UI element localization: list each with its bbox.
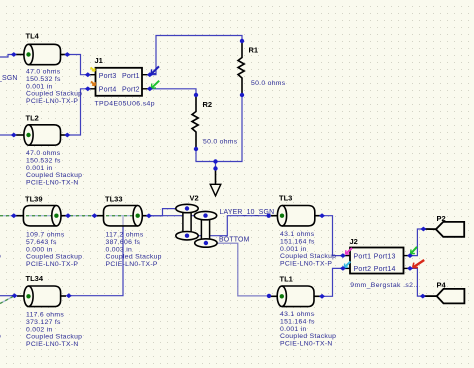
pin dot TL33 output xyxy=(136,214,140,218)
svg-text:LAYER_10_SGN: LAYER_10_SGN xyxy=(220,209,275,216)
svg-text:TPD4E05U06.s4p: TPD4E05U06.s4p xyxy=(95,100,155,107)
orange arrow marker at J1 left xyxy=(91,82,95,86)
pin terminal J2 Port2 xyxy=(340,266,346,271)
wire J1 Port2 to R2 top xyxy=(150,89,196,95)
red arrow marker at J2 Port14 xyxy=(413,260,424,268)
pin terminal TL39 output xyxy=(65,213,71,218)
svg-text:PCIE-LN0-TX-P: PCIE-LN0-TX-P xyxy=(106,261,158,268)
node R1 bottom terminal xyxy=(240,93,244,97)
svg-text:PCIE-LN0-TX-P: PCIE-LN0-TX-P xyxy=(26,261,78,268)
wire dashed highlight into TL39 input xyxy=(0,216,93,304)
svg-text:PCIE-LN0-TX-N: PCIE-LN0-TX-N xyxy=(26,341,79,348)
wire J2 Port13 to P2 xyxy=(410,229,423,256)
svg-text:Port4: Port4 xyxy=(99,87,117,94)
node R1 top terminal xyxy=(240,39,244,43)
svg-text:117.2 ohms: 117.2 ohms xyxy=(106,232,144,239)
svg-text:P4: P4 xyxy=(437,281,447,290)
svg-text:387.606 fs: 387.606 fs xyxy=(106,239,141,246)
svg-text:0.000 in: 0.000 in xyxy=(26,246,53,253)
wire dashed diagonal into TL34 input xyxy=(0,297,13,304)
wire dashed between TL39 and TL33 xyxy=(70,215,93,217)
pin terminal TL34 output xyxy=(66,293,72,298)
svg-text:50.0 ohms: 50.0 ohms xyxy=(203,139,238,146)
wire TL33 output to V2 left barrel top xyxy=(149,209,187,216)
svg-text:0.001 in: 0.001 in xyxy=(280,326,307,333)
svg-text:TL33: TL33 xyxy=(105,195,123,204)
green arrow marker at J2 Port13 xyxy=(411,247,417,254)
dark blue arrow marker at J1 Port1 xyxy=(151,66,159,74)
svg-text:TL1: TL1 xyxy=(280,275,293,284)
svg-text:47.0 ohms: 47.0 ohms xyxy=(26,150,61,157)
pin dot TL39 output xyxy=(54,214,58,218)
svg-text:R1: R1 xyxy=(249,46,259,55)
svg-text:Port3: Port3 xyxy=(99,73,117,80)
magenta arrow marker at J2 Port1 xyxy=(346,248,353,254)
wire V2 left barrel bottom to LAYER_10_SGN net xyxy=(187,216,269,236)
svg-text:Port1: Port1 xyxy=(122,73,140,80)
svg-text:TL2: TL2 xyxy=(26,114,39,123)
transmission line TL33 (ellipse right) xyxy=(97,206,148,226)
svg-text:Coupled Stackup: Coupled Stackup xyxy=(280,253,336,260)
wire TL4 output to J1 Port3 xyxy=(67,55,88,75)
svg-text:43.1 ohms: 43.1 ohms xyxy=(280,231,315,238)
wire junction to V2 arrow xyxy=(215,162,217,169)
junction at V2 arrow wire xyxy=(213,159,217,163)
svg-text:R2: R2 xyxy=(203,100,213,109)
svg-text:150.532 fs: 150.532 fs xyxy=(26,157,61,164)
pin terminal TL3 output xyxy=(319,213,325,218)
pin terminal J2 Port13 xyxy=(407,253,413,258)
wire TL34 input xyxy=(0,295,15,297)
via V2 right barrel xyxy=(201,217,209,241)
svg-text:151.164 fs: 151.164 fs xyxy=(280,318,315,325)
svg-text:0.003 in: 0.003 in xyxy=(106,246,133,253)
transmission line TL4 xyxy=(16,44,66,64)
svg-text:Port14: Port14 xyxy=(374,266,396,273)
wire J1 Port1 to R1 top xyxy=(150,36,242,75)
svg-text:Coupled Stackup: Coupled Stackup xyxy=(280,333,336,340)
svg-text:p: p xyxy=(0,253,1,260)
svg-text:V2: V2 xyxy=(190,194,199,203)
wire TL1 output to J2 Port2 xyxy=(322,268,343,296)
svg-text:Port1: Port1 xyxy=(354,253,372,260)
pin terminal TL2 output xyxy=(64,133,70,138)
cyan arrow marker at J2 Port2 xyxy=(344,262,350,268)
transmission line TL39 (ellipse right) xyxy=(16,206,68,226)
svg-text:150.532 fs: 150.532 fs xyxy=(26,76,61,83)
svg-text:_SGN: _SGN xyxy=(0,75,18,82)
pin terminal P4 xyxy=(420,294,426,299)
junction at TL1 input (BOTTOM) xyxy=(267,294,271,298)
svg-text:J1: J1 xyxy=(95,56,103,65)
wire TL3 output to J2 Port1 xyxy=(322,216,343,256)
svg-text:Coupled Stackup: Coupled Stackup xyxy=(26,254,82,261)
pin dot TL3 input xyxy=(280,214,284,218)
svg-text:Coupled Stackup: Coupled Stackup xyxy=(26,91,82,98)
svg-text:TL3: TL3 xyxy=(279,194,292,203)
node V2 arrow pin xyxy=(213,166,217,170)
pin terminal P2 xyxy=(420,227,426,232)
svg-text:0.001 in: 0.001 in xyxy=(26,165,53,172)
svg-text:117.6 ohms: 117.6 ohms xyxy=(26,312,64,319)
pin terminal TL1 output xyxy=(319,294,325,299)
svg-text:PCIE-LN0-TX-P: PCIE-LN0-TX-P xyxy=(26,98,78,105)
svg-text:PCIE-LN0-TX-N: PCIE-LN0-TX-N xyxy=(280,341,333,348)
svg-text:50.0 ohms: 50.0 ohms xyxy=(251,80,286,87)
svg-text:J2: J2 xyxy=(350,237,358,246)
svg-text:TL39: TL39 xyxy=(25,195,43,204)
wire TL34 output riser to V2 right barrel top xyxy=(69,216,206,296)
pin terminal TL4 input xyxy=(11,52,17,57)
pin dot TL34 input xyxy=(26,294,30,298)
via V2 pad dots xyxy=(185,206,189,210)
pin terminal J1 Port3 xyxy=(85,72,91,77)
svg-text:PCIE-LN0-TX-N: PCIE-LN0-TX-N xyxy=(26,180,79,187)
pin terminal TL2 input xyxy=(11,133,17,138)
connector J1 body and pins xyxy=(88,68,150,96)
transmission line TL3 xyxy=(271,206,320,226)
resistor R1 xyxy=(238,41,244,95)
svg-text:151.164 fs: 151.164 fs xyxy=(280,238,315,245)
pin dot TL4 input xyxy=(26,52,30,56)
svg-text:Port2: Port2 xyxy=(122,87,140,94)
svg-text:0.002 in: 0.002 in xyxy=(26,326,53,333)
pin terminal J1 Port4 xyxy=(85,86,91,91)
wire V2 right barrel bottom to TL1 (BOTTOM net) xyxy=(206,243,269,296)
pin terminal J2 Port14 xyxy=(407,266,413,271)
green arrow marker at J1 Port2 xyxy=(151,81,159,89)
pin terminal J2 Port1 xyxy=(340,253,346,258)
svg-text:0.001 in: 0.001 in xyxy=(280,246,307,253)
svg-text:Coupled Stackup: Coupled Stackup xyxy=(106,254,162,261)
svg-text:BOTTOM: BOTTOM xyxy=(219,237,250,244)
transmission line TL34 xyxy=(17,286,66,307)
wire junction to R2 bottom xyxy=(196,149,216,162)
svg-text:0.001 in: 0.001 in xyxy=(26,83,53,90)
pin terminal J1 Port1 xyxy=(147,72,153,77)
pin terminal TL39 input xyxy=(11,213,17,218)
svg-text:9mm_Bergstak .s2..: 9mm_Bergstak .s2.. xyxy=(350,282,418,289)
svg-text:Port13: Port13 xyxy=(374,253,396,260)
pin dot TL2 input xyxy=(26,133,30,137)
pin terminal J1 Port2 xyxy=(147,86,153,91)
svg-text:43.1 ohms: 43.1 ohms xyxy=(280,311,315,318)
node R2 top terminal xyxy=(194,93,198,97)
node R2 bottom terminal xyxy=(194,147,198,151)
svg-text:57.643 fs: 57.643 fs xyxy=(26,239,57,246)
svg-text:Coupled Stackup: Coupled Stackup xyxy=(26,334,82,341)
pin dot TL1 input xyxy=(280,294,284,298)
pin terminal TL4 output xyxy=(64,52,70,57)
wire TL2 output to J1 Port4 xyxy=(67,89,88,135)
svg-text:47.0 ohms: 47.0 ohms xyxy=(26,69,61,76)
svg-text:p: p xyxy=(0,333,1,340)
pin terminal TL33 input xyxy=(92,213,98,218)
via V2 entry arrow xyxy=(215,169,217,185)
connector J2 body and pins xyxy=(343,248,410,274)
transmission line TL2 xyxy=(16,125,66,145)
svg-text:PCIE-LN0-TX-P: PCIE-LN0-TX-P xyxy=(280,261,332,268)
svg-text:TL34: TL34 xyxy=(26,274,44,283)
svg-text:373.127 fs: 373.127 fs xyxy=(26,319,61,326)
svg-text:TL4: TL4 xyxy=(26,32,40,41)
wire TL2 input xyxy=(0,134,14,136)
wire R1 bottom to junction xyxy=(216,95,243,162)
wire TL4 input xyxy=(0,55,14,58)
pin terminal TL34 input xyxy=(12,293,18,298)
pin terminal TL33 output xyxy=(146,213,152,218)
svg-text:Port2: Port2 xyxy=(354,266,372,273)
junction at TL3 input (LAYER_10_SGN) xyxy=(267,214,271,218)
via V2 left barrel xyxy=(183,210,191,234)
wire J2 Port14 to P4 xyxy=(410,268,423,296)
resistor R2 xyxy=(192,95,198,149)
transmission line TL1 xyxy=(271,286,320,307)
svg-text:P2: P2 xyxy=(437,214,446,223)
yellow arrow marker at J1 top-left xyxy=(91,68,96,72)
wire faint riser inside TL33 xyxy=(122,217,124,226)
svg-text:109.7 ohms: 109.7 ohms xyxy=(26,232,65,239)
svg-text:Coupled Stackup: Coupled Stackup xyxy=(26,172,82,179)
